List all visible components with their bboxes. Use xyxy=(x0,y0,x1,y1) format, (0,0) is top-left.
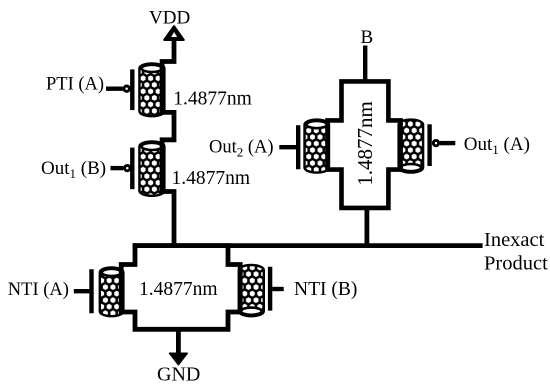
wire gate lead NTI(A) xyxy=(74,289,90,293)
transistor Q2 gate bubble xyxy=(125,165,130,170)
ground arrow xyxy=(170,353,188,364)
svg-text:NTI (B): NTI (B) xyxy=(294,279,357,300)
bottom NAND footer body outline xyxy=(121,246,240,330)
svg-text:Out2 (A): Out2 (A) xyxy=(209,137,274,159)
VDD power arrow xyxy=(164,26,183,40)
svg-text:Product: Product xyxy=(484,252,548,274)
transistor Q1 gate bar xyxy=(130,69,134,110)
svg-text:NTI (A): NTI (A) xyxy=(8,280,69,300)
transistor Q1 PTI(A) nanotube channel xyxy=(139,63,164,116)
svg-text:GND: GND xyxy=(157,363,200,385)
transistor Q3 gate bar xyxy=(296,125,300,169)
wire gate lead Out1(B) xyxy=(111,166,124,170)
transistor Q2 gate bar xyxy=(130,148,134,190)
svg-text:Out1 (B): Out1 (B) xyxy=(41,158,106,181)
wire gate lead Out2(A) xyxy=(279,145,296,149)
transmission gate body outline xyxy=(328,81,401,207)
transistor Q2 Out1(B) nanotube channel xyxy=(139,141,164,195)
svg-text:1.4877nm: 1.4877nm xyxy=(353,101,377,186)
wire gate lead NTI(B) xyxy=(272,287,284,291)
svg-text:B: B xyxy=(361,27,374,48)
wire transmission gate to output line xyxy=(364,208,369,246)
wire B to transmission gate xyxy=(363,46,367,82)
wire gate lead PTI(A) xyxy=(106,86,123,90)
svg-text:Inexact: Inexact xyxy=(484,229,545,251)
svg-text:VDD: VDD xyxy=(149,8,190,29)
svg-text:PTI (A): PTI (A) xyxy=(46,74,104,94)
wire GND tap xyxy=(176,329,181,354)
transistor Q6 NTI(B) nanotube channel (flipped) xyxy=(239,265,264,316)
transistor Q4 gate bubble xyxy=(433,140,438,145)
wire inexact product output line xyxy=(133,243,483,248)
svg-text:1.4877nm: 1.4877nm xyxy=(139,279,218,300)
transistor Q3 Out2(A) nanotube channel xyxy=(305,120,330,173)
transistor Q1 gate bubble xyxy=(124,86,129,91)
svg-text:Out1 (A): Out1 (A) xyxy=(464,134,530,157)
svg-text:1.4877nm: 1.4877nm xyxy=(172,168,251,189)
transistor Q5 gate bar xyxy=(89,269,93,313)
transistor Q4 gate bar xyxy=(427,124,431,166)
transistor Q5 NTI(A) nanotube channel xyxy=(100,267,124,316)
wire VDD stem + T1/T2 source-drain chain xyxy=(162,39,174,246)
transistor Q6 gate bar xyxy=(268,267,272,311)
wire gate lead Out1(A) xyxy=(440,141,455,145)
svg-text:1.4877nm: 1.4877nm xyxy=(173,89,252,110)
transistor Q4 Out1(A) nanotube channel (flipped) xyxy=(399,120,424,173)
